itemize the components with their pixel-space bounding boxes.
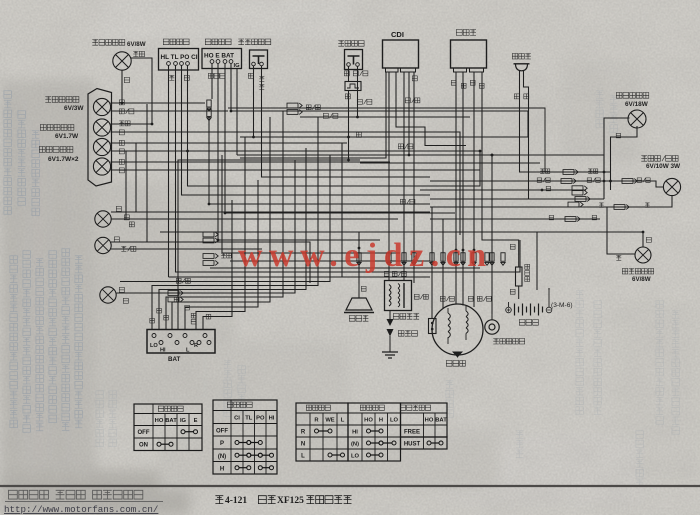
wire: black from front brake switch xyxy=(253,66,255,137)
horn (speaker) xyxy=(344,284,374,313)
wire labels green white yellow red under rectifier xyxy=(451,80,484,88)
label: spark plug xyxy=(398,331,417,337)
svg-text:TL: TL xyxy=(245,416,253,422)
wire: green from headlamp into harness xyxy=(117,160,296,293)
junction at 122,103 xyxy=(121,102,124,105)
lamp: meter illumination 2 xyxy=(93,158,110,175)
wire: black from neutral indicator xyxy=(111,102,206,104)
wire: blue from handlebar switch (cascade) xyxy=(159,148,306,330)
label: battery xyxy=(519,320,538,326)
wire: black from connector down xyxy=(209,117,430,204)
wire labels under front brake switch xyxy=(248,73,264,89)
svg-text:www.ejdz.cn: www.ejdz.cn xyxy=(238,237,493,274)
page rule line xyxy=(0,485,700,487)
ignition coil xyxy=(385,281,412,311)
wire: harness h-blue xyxy=(210,267,480,269)
junction at 463,250 xyxy=(462,249,465,252)
svg-text:PO: PO xyxy=(256,416,265,422)
wire: HL pin drop xyxy=(168,66,170,278)
svg-text:6V/8W: 6V/8W xyxy=(127,41,146,48)
wire: green drop from front right turn lamp xyxy=(121,71,123,104)
svg-text:6V1.7W×2: 6V1.7W×2 xyxy=(48,156,79,163)
wire: green from meter lamp 1 xyxy=(111,150,481,152)
wire: brown/white from front left turn lower xyxy=(111,248,262,250)
label: neutral indicator lamp 6V/3W xyxy=(45,97,84,113)
svg-text:6V/10W 3W: 6V/10W 3W xyxy=(646,163,681,170)
lamp: rear right turn 6V/18W xyxy=(628,110,646,128)
label: brake switch xyxy=(338,41,364,47)
svg-text:XF125: XF125 xyxy=(277,496,304,506)
lamp: front left turn (upper) xyxy=(95,211,111,227)
wire: magneto pickup feed xyxy=(431,207,433,319)
wire label green at rear right lamp drop xyxy=(616,133,620,137)
wire: purple from handlebar switch (cascade) xyxy=(166,111,283,330)
wire: brown row to tail lamp bottom xyxy=(430,196,672,207)
connectors right side rows xyxy=(540,169,598,175)
wire: green row xyxy=(420,189,586,191)
svg-text:OFF: OFF xyxy=(138,430,150,436)
junction at 253.5,137 xyxy=(252,136,255,139)
connector pair: left harness A xyxy=(203,232,218,243)
svg-text:CI: CI xyxy=(234,416,240,422)
wire: TL pin drop xyxy=(176,66,521,273)
wire: green/yellow row to tail lamp xyxy=(430,181,663,187)
wire: brown from front brake switch xyxy=(262,66,431,177)
connector pair: black/white mid xyxy=(287,103,320,114)
wire labels black, green/yellow under brake switch xyxy=(344,71,368,76)
wire: horn feed xyxy=(358,232,360,284)
wire: harness v4 xyxy=(222,155,400,253)
wire: light blue row xyxy=(540,171,610,173)
wire: green feed rear right turn lamp left xyxy=(604,118,630,199)
svg-text:HI: HI xyxy=(269,416,275,422)
wire: red pin drop xyxy=(231,64,528,138)
wire: flasher grey xyxy=(520,71,541,173)
junction at 225,213 xyxy=(224,212,227,215)
wire label black below diode xyxy=(345,94,350,99)
label: fuse (vertical) xyxy=(525,264,530,281)
label: neutral lamp switch xyxy=(493,339,524,345)
junction at 610.5,181 xyxy=(609,180,612,183)
table: ignition switch truth table xyxy=(134,404,202,451)
wire: CI yellow pin drop xyxy=(188,66,481,187)
svg-text:OFF: OFF xyxy=(216,428,228,434)
svg-text:HO E BAT: HO E BAT xyxy=(204,53,234,60)
label: ignition coil xyxy=(393,314,419,320)
flasher relay xyxy=(514,64,530,71)
svg-text:IG: IG xyxy=(180,418,187,424)
wire label black/white xyxy=(176,278,190,283)
svg-text:H: H xyxy=(379,418,383,424)
svg-text:CDI: CDI xyxy=(391,30,404,39)
junction at 359,248 xyxy=(358,247,361,250)
svg-text:L: L xyxy=(301,454,305,460)
junction at 409,155 xyxy=(408,154,411,157)
wire: harness h277 xyxy=(169,276,431,278)
wire: harness h261 xyxy=(230,260,430,262)
svg-text:L: L xyxy=(186,348,190,354)
wire label red above fuse xyxy=(510,244,515,249)
svg-text:HL TL PO CI: HL TL PO CI xyxy=(161,54,198,61)
wire label green above horn xyxy=(361,286,366,291)
wire: neutral switch horizontal xyxy=(237,155,604,196)
wire: rectifier yellow to magneto xyxy=(473,72,475,307)
junction at 218,240 xyxy=(217,239,220,242)
svg-text:WE: WE xyxy=(325,418,334,424)
svg-text:L: L xyxy=(341,418,345,424)
wire: purple/red bus xyxy=(111,110,229,112)
label: rectifier xyxy=(456,30,476,36)
svg-text:HO: HO xyxy=(155,418,164,424)
wire: CDI pin to coil primary xyxy=(388,72,390,281)
wire labels grey black under flasher xyxy=(514,94,529,99)
svg-text:E: E xyxy=(194,418,198,424)
rectifier box xyxy=(451,40,487,72)
svg-text:LO: LO xyxy=(390,418,399,424)
wire: black bus horizontal xyxy=(240,136,528,138)
junction at 348.5,160 xyxy=(347,159,350,162)
svg-text:HO: HO xyxy=(364,418,373,424)
label: lighting switch xyxy=(163,39,189,45)
label: front brake switch xyxy=(238,39,271,45)
wire: E pin drop xyxy=(218,64,380,241)
wire: green/yellow horizontal xyxy=(300,116,470,118)
wire: rectifier red to fuse xyxy=(482,72,519,255)
svg-text:ON: ON xyxy=(139,443,148,449)
lamp: rear left turn 6V/8W xyxy=(635,247,651,263)
svg-text:P: P xyxy=(220,441,224,447)
connector pair: harness mid-left xyxy=(168,291,183,302)
lamp: meter illumination 1 xyxy=(93,138,110,155)
junction at 209,204 xyxy=(208,203,211,206)
footer: uploader credit (grey) xyxy=(5,490,163,501)
wire label light-blue xyxy=(133,51,144,56)
lighting switch box (HL TL PO CI) xyxy=(159,49,199,71)
wire: rectifier green to magneto xyxy=(455,72,457,305)
label: turn indicator lamp 6V1.7W xyxy=(40,125,79,141)
wire: brown feed to rear-left turn lamp xyxy=(607,207,635,254)
wire: green net to rear-left turn lamp xyxy=(160,232,643,247)
svg-text:H: H xyxy=(220,466,224,472)
wire: purple/red from handlebar switch (cascade) xyxy=(196,137,245,330)
wire: harness v3 xyxy=(146,104,148,242)
junction at 152,124 xyxy=(151,123,154,126)
wire: black from meter lamp 1 xyxy=(111,142,348,144)
magneto (alternator) xyxy=(432,304,483,355)
junction at 456,250 xyxy=(455,249,458,252)
lamp: brake/tail 6V/10W 3W xyxy=(663,178,680,195)
wire: orange row xyxy=(430,218,600,220)
wire: harness v12 xyxy=(341,143,343,277)
wire labels right of panel lamps xyxy=(119,100,134,173)
wire labels brown / yellow under lighting switch xyxy=(169,75,189,80)
lamp: neutral indicator 6V/3W xyxy=(93,98,110,115)
label: front right turn lamp 6V/8W xyxy=(92,40,145,49)
wire: CDI pin black/yellow to coil xyxy=(403,72,405,281)
svg-text:HUST: HUST xyxy=(404,442,421,448)
wire: harness h163 xyxy=(360,162,540,164)
wire label black on long black wire xyxy=(356,132,361,137)
wire label brown at rear-left lamp xyxy=(616,255,621,260)
junction at 348.5,137 xyxy=(347,136,350,139)
svg-text:R: R xyxy=(301,430,306,436)
front brake switch box xyxy=(250,50,268,69)
CDI unit box xyxy=(383,40,419,72)
wire: black diode to black bus xyxy=(348,91,350,161)
wire label green/yellow at junction left xyxy=(323,113,338,118)
vertical connector row above magneto xyxy=(357,253,505,266)
wire: yellow from front left turn upper xyxy=(111,211,430,213)
label: meter illumination lamp 6V1.7W x2 xyxy=(39,147,79,164)
wire: green/white from front left turn upper xyxy=(111,218,398,220)
junction at 480,151 xyxy=(479,150,482,153)
connector pair: ignition switch harness xyxy=(207,100,211,121)
wire: orange from turn indicator xyxy=(111,132,461,235)
junction at 492,155 xyxy=(491,154,494,157)
lamp: front left turn (lower) xyxy=(95,237,111,253)
spark plug xyxy=(387,311,394,353)
wire: grey from handlebar switch (cascade) xyxy=(203,200,232,330)
wire label black/red below CDI xyxy=(398,144,413,149)
connector pair: left harness B with light blue label xyxy=(203,253,231,265)
wire: battery positive feed xyxy=(536,232,538,290)
junction at 357.5,117 xyxy=(356,116,359,119)
wire: green drop rear right turn lamp bottom xyxy=(611,126,638,190)
svg-text:4-121: 4-121 xyxy=(225,496,247,506)
svg-text:6V/8W: 6V/8W xyxy=(632,276,651,283)
wire: black/white to light-blue row xyxy=(228,108,545,172)
svg-text:HI: HI xyxy=(160,348,166,354)
rear brake switch box xyxy=(345,50,363,70)
svg-text:BAT: BAT xyxy=(165,418,177,424)
wire labels near lower-left lamps xyxy=(114,206,136,303)
label: brake/tail lamp 6V/10W 3W xyxy=(641,156,681,171)
wire labels above magneto: green/white black/red yellow purple/red xyxy=(414,294,491,301)
svg-text:R: R xyxy=(194,343,198,349)
junction at 492,155 xyxy=(491,154,494,157)
wire: green/yellow from brake switch xyxy=(357,67,359,118)
wire: cascade stub upper xyxy=(120,155,330,282)
wire label black/yellow lower xyxy=(400,199,415,204)
wire: neutral switch feed xyxy=(491,155,493,314)
wire: black from meter lamp 2 xyxy=(111,161,391,163)
fuse xyxy=(516,255,523,299)
wire: black from brake switch to diode xyxy=(348,67,350,82)
svg-text:N: N xyxy=(301,442,305,448)
wire: orange from handlebar switch (cascade) xyxy=(185,180,258,330)
svg-text:http://www.motorfans.com.cn/: http://www.motorfans.com.cn/ xyxy=(4,504,158,515)
label: rear right turn lamp 6V/18W xyxy=(616,93,649,109)
svg-text:(3-M-6): (3-M-6) xyxy=(551,302,573,309)
svg-text:LO: LO xyxy=(150,343,158,349)
wire: handlebar cascade c7 xyxy=(172,117,270,330)
label: magneto xyxy=(446,361,465,367)
junction at 604,172 xyxy=(603,171,606,174)
svg-text:LO: LO xyxy=(351,454,360,460)
wire: battery negative stub xyxy=(548,288,550,290)
vertical wire colour labels above handlebar switch xyxy=(150,297,211,324)
wire: CDI pin left turn xyxy=(240,72,386,158)
wire: light blue net top lamp xyxy=(111,58,153,124)
wire: IG drop xyxy=(236,68,238,155)
svg-text:BAT: BAT xyxy=(435,418,447,424)
svg-text:6V/3W: 6V/3W xyxy=(64,105,84,112)
svg-text:6V/18W: 6V/18W xyxy=(625,101,649,108)
lamp: headlamp xyxy=(100,287,116,303)
junction at 187.5,151 xyxy=(186,150,189,153)
wire label green at CDI xyxy=(412,76,417,81)
table: lighting switch truth table xyxy=(213,400,277,474)
ground: magneto xyxy=(452,352,463,358)
junction at 474,250 xyxy=(473,249,476,252)
handlebar switch unit box xyxy=(147,330,215,354)
magneto side pickup box xyxy=(429,319,437,334)
junction at 231,111 xyxy=(230,110,233,113)
wire labels green, black/yellow above coil xyxy=(384,271,406,276)
label: ignition switch xyxy=(205,39,231,45)
wire: harness v1 xyxy=(125,151,127,219)
wire: green from front left turn lower xyxy=(111,242,310,283)
label: flasher xyxy=(512,54,531,60)
wire label green xyxy=(124,77,129,82)
label: horn xyxy=(349,316,368,322)
wire: BAT pin drop xyxy=(225,64,455,214)
instrument panel outline xyxy=(88,89,112,187)
neutral lamp switch xyxy=(485,314,499,334)
ignition switch box (HO E BAT / IG) xyxy=(202,49,242,70)
wire: CDI yellow/white xyxy=(396,72,466,146)
wire: flasher black xyxy=(524,71,546,200)
junction at 643,232 xyxy=(642,231,645,234)
wire: CDI black/red xyxy=(408,72,410,155)
wire: rectifier white to magneto xyxy=(462,72,464,306)
svg-text:(N): (N) xyxy=(218,454,226,460)
wire: white from handlebar switch (cascade) xyxy=(152,117,318,330)
wire label yellow/white at CDI xyxy=(405,98,420,103)
battery xyxy=(506,290,552,316)
wire label green at rear-left lamp xyxy=(646,237,651,242)
junction at 604,181 xyxy=(603,180,606,183)
svg-text:FREE: FREE xyxy=(404,430,420,436)
wire: black from handlebar switch xyxy=(178,160,360,330)
ground: spark plug xyxy=(382,352,398,358)
wire: magneto feed extra xyxy=(442,219,444,308)
wire label red below fuse xyxy=(510,289,515,294)
lamp: turn indicator 6V1.7W xyxy=(93,119,110,136)
svg-text:HO: HO xyxy=(425,418,434,424)
wire: green from meter lamp 2 xyxy=(111,169,481,171)
caption: figure 4-121 XF125 wiring diagram xyxy=(215,496,351,506)
diode module under brake switch xyxy=(345,82,361,91)
wire: PO pin drop xyxy=(182,66,431,196)
wire label green/yellow right xyxy=(357,99,372,104)
wire: HO pin to connector xyxy=(211,64,213,100)
wire labels black green red under ignition switch xyxy=(208,73,225,78)
wire: row y199 xyxy=(430,198,604,200)
bleed-through text columns (decorative scan artifact) xyxy=(4,91,83,433)
table: flasher / dimmer / horn switch truth table xyxy=(296,403,348,461)
lamp: front right turn 6V/8W xyxy=(113,52,131,70)
svg-text:6V1.7W: 6V1.7W xyxy=(55,133,79,140)
svg-text:BAT: BAT xyxy=(168,356,180,363)
wire: harness v2 xyxy=(135,143,137,212)
svg-text:HI: HI xyxy=(352,430,358,436)
svg-text:(N): (N) xyxy=(351,442,359,448)
wire: CDI green xyxy=(413,72,415,283)
label: rear left turn lamp 6V/8W xyxy=(622,269,653,284)
